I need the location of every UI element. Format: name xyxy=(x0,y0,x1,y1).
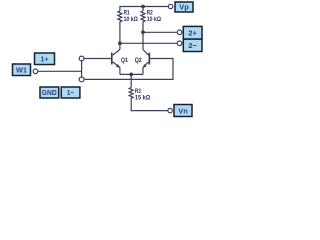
wire R2 bottom to node 2+ xyxy=(142,22,144,33)
junction dot top rail to R2 xyxy=(141,5,145,9)
junction dot node 2+ xyxy=(141,30,145,34)
svg-text:10 kΩ: 10 kΩ xyxy=(147,16,161,23)
wire R3 top xyxy=(130,74,132,87)
wire GND terminal to Q2 base xyxy=(84,59,173,80)
wire W1 to vertical xyxy=(38,70,82,72)
wire node 2- to terminal 2- xyxy=(120,42,177,44)
pin label Vn xyxy=(174,105,192,117)
pin label 1+ xyxy=(35,53,55,65)
terminal 2+ xyxy=(177,30,182,35)
resistor R1 xyxy=(118,11,122,22)
wire top supply rail xyxy=(120,7,168,12)
wire vertical 1+ terminal to GND terminal xyxy=(81,61,83,77)
svg-text:Vp: Vp xyxy=(179,3,189,12)
terminal W1 xyxy=(33,69,38,74)
resistor R3 xyxy=(129,88,133,99)
svg-text:W1: W1 xyxy=(16,65,27,74)
terminal Vn xyxy=(168,108,172,112)
terminal 1+ xyxy=(79,56,84,61)
wire Q1 collector to node 2- xyxy=(119,43,121,49)
terminal Vp xyxy=(168,4,172,8)
transistor Q1 xyxy=(111,50,120,68)
pin label 2+ xyxy=(183,26,202,39)
terminal 2- xyxy=(177,41,182,46)
svg-text:Q2: Q2 xyxy=(135,57,142,64)
wire emitter rail xyxy=(120,73,143,75)
svg-text:Q1: Q1 xyxy=(121,57,128,64)
wire R1 bottom to node 2- xyxy=(119,22,121,44)
resistor R2 xyxy=(141,7,145,22)
pin label 1- xyxy=(61,87,80,98)
pin label W1 xyxy=(13,64,31,76)
pin label 2- xyxy=(183,39,202,52)
wire Q1 base xyxy=(84,58,111,60)
svg-text:15 kΩ: 15 kΩ xyxy=(135,95,150,102)
transistor Q2 xyxy=(143,50,151,68)
junction dot emitters to R3 xyxy=(129,73,133,77)
wire node 2+ to terminal 2+ xyxy=(143,31,177,33)
pin label Vp xyxy=(175,2,193,12)
svg-text:1−: 1− xyxy=(67,88,75,97)
terminal GND xyxy=(79,77,84,82)
svg-text:2−: 2− xyxy=(188,41,197,50)
svg-text:1+: 1+ xyxy=(41,54,50,63)
svg-text:10 kΩ: 10 kΩ xyxy=(124,16,138,23)
svg-text:GND: GND xyxy=(42,88,58,97)
pin label GND xyxy=(40,87,59,98)
svg-text:2+: 2+ xyxy=(188,28,197,37)
wire Q2 collector from node 2+ xyxy=(142,32,144,49)
wire R3 to terminal Vn xyxy=(131,98,168,110)
wire Q2 emitter to rail xyxy=(142,67,144,74)
junction dot node 2- xyxy=(118,41,122,45)
svg-text:Vn: Vn xyxy=(178,106,188,115)
wire Q1 emitter to rail xyxy=(119,67,121,74)
